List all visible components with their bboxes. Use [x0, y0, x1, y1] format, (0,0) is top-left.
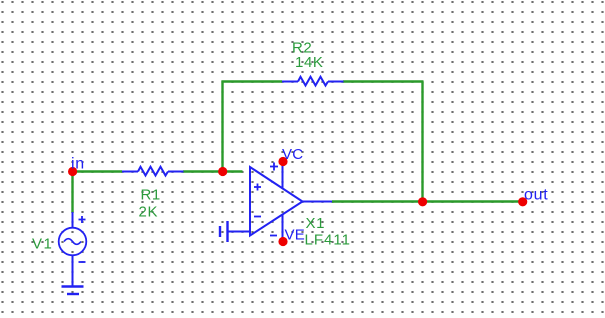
op-amp output lead	[303, 201, 333, 203]
op-amp inner minus	[254, 216, 261, 218]
voltage source V1 lead bottom	[72, 256, 74, 287]
wire: top rail left of R2	[222, 80, 283, 82]
sine wave inside V1	[64, 239, 81, 245]
wire: junction to op-amp + input	[222, 170, 243, 172]
ground (rotated, on minus input)	[220, 221, 228, 242]
node VC dot	[278, 157, 287, 166]
ground under V1	[62, 287, 84, 295]
wire: feedback right vertical	[421, 82, 423, 203]
wire: top rail right of R2	[343, 80, 424, 82]
svg-text:VE: VE	[285, 227, 305, 244]
svg-text:2K: 2K	[139, 204, 159, 221]
op-amp U1 triangle	[250, 167, 303, 236]
minus sign at VE pin	[270, 235, 277, 237]
wire: R1 to junction node	[183, 170, 224, 172]
plus sign at VC pin	[270, 163, 278, 171]
op-amp VE power pin	[282, 214, 284, 242]
svg-text:out: out	[524, 187, 548, 204]
node output junction dot	[418, 197, 427, 206]
svg-text:in: in	[71, 156, 85, 173]
svg-text:V1: V1	[32, 236, 53, 253]
svg-text:X1: X1	[306, 215, 326, 232]
node VE dot	[278, 237, 287, 246]
node in dot	[68, 167, 77, 176]
resistor R2	[282, 77, 344, 86]
wire: in node to R1	[73, 170, 123, 172]
resistor R1	[122, 167, 184, 176]
op-amp inner plus	[254, 184, 261, 191]
wire: in node down to V1	[71, 172, 73, 214]
voltage source V1 lead top	[72, 212, 74, 228]
node out dot	[518, 197, 527, 206]
svg-text:VC: VC	[282, 146, 303, 163]
wire: feedback left vertical	[221, 81, 223, 173]
op-amp VC power pin	[282, 162, 284, 190]
voltage source V1 circle	[59, 228, 87, 256]
op-amp minus input lead	[228, 231, 250, 233]
wire: op-amp output to out node	[332, 200, 523, 202]
svg-text:14K: 14K	[295, 54, 324, 71]
minus sign at V1	[79, 261, 86, 263]
node junction dot	[218, 167, 227, 176]
svg-text:LF411: LF411	[305, 232, 351, 249]
svg-text:R1: R1	[141, 187, 161, 204]
plus sign at V1	[79, 216, 86, 223]
